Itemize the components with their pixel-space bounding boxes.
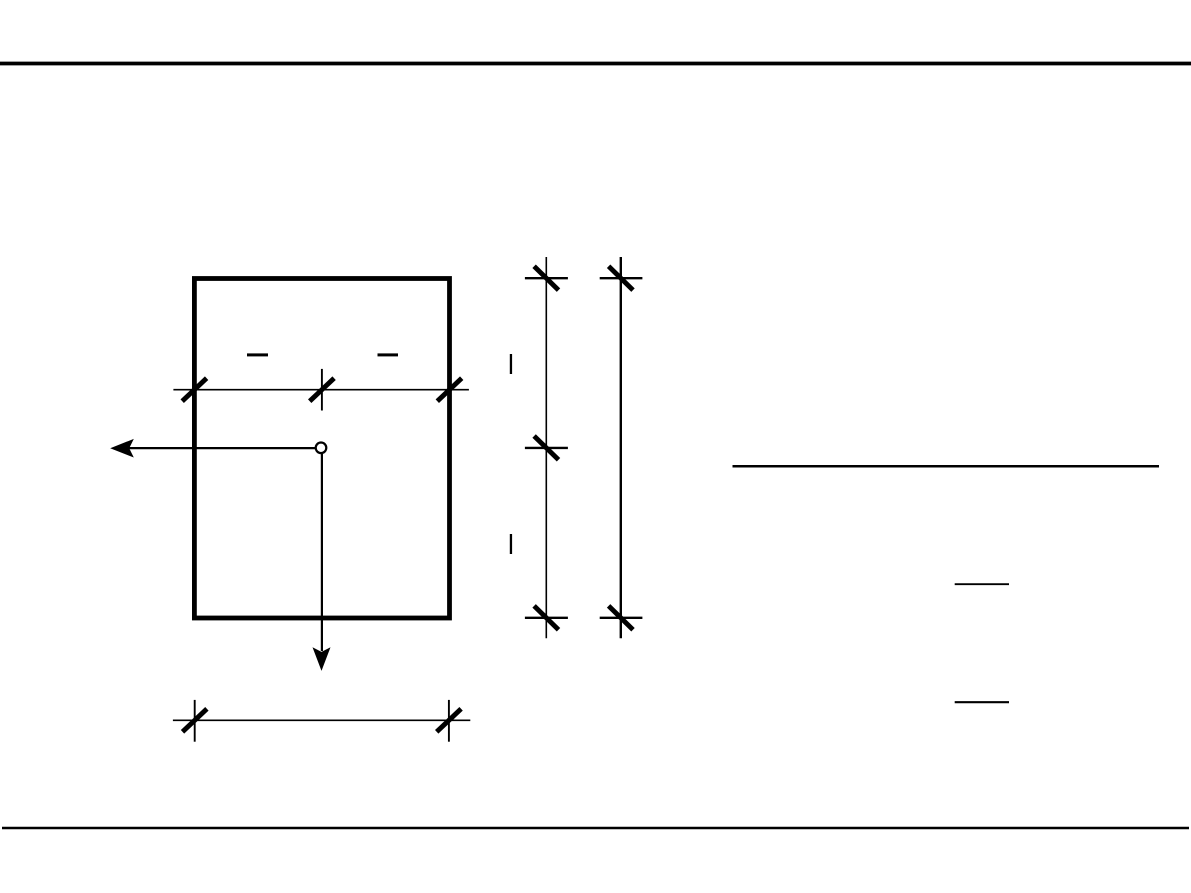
right extension line of bottom dimension: [448, 700, 450, 742]
tick bottom of first vertical dimension: [534, 606, 558, 630]
tick left of bottom dimension: [183, 709, 207, 732]
label fraction bar b/2 left: [247, 353, 268, 356]
first vertical dimension line: [545, 257, 547, 638]
top horizontal dimension line: [173, 389, 469, 391]
tick bottom of second vertical dimension: [609, 606, 633, 630]
equation fraction bar upper: [955, 583, 1009, 585]
top header rule: [0, 62, 1191, 66]
bottom extension line of second vertical dimension: [600, 617, 643, 619]
middle extension line of top dimension: [321, 369, 323, 411]
tick top of second vertical dimension: [609, 266, 633, 290]
second vertical dimension line: [620, 257, 622, 638]
centroid circle: [316, 443, 327, 454]
tick right of bottom dimension: [437, 709, 461, 732]
left extension line of bottom dimension: [194, 700, 196, 742]
equation fraction bar lower: [955, 701, 1009, 703]
vertical arrow shaft (load line): [321, 454, 323, 651]
tick left of top dimension: [182, 378, 206, 401]
tick middle of first vertical dimension: [534, 436, 558, 460]
long equation rule: [733, 465, 1160, 468]
top extension line of first vertical dimension: [525, 277, 568, 279]
label fraction bar b/2 right: [378, 353, 399, 356]
bottom extension line of first vertical dimension: [525, 617, 568, 619]
vertical arrowhead pointing down: [313, 647, 331, 671]
bottom footer rule: [2, 827, 1189, 829]
rotated label fraction bar upper: [510, 354, 512, 374]
tick top of first vertical dimension: [534, 266, 558, 290]
top extension line of second vertical dimension: [600, 277, 643, 279]
horizontal arrow shaft (eccentricity axis): [129, 447, 315, 449]
tick middle of top dimension: [310, 378, 334, 401]
tick right of top dimension: [437, 378, 461, 401]
horizontal arrowhead pointing left: [110, 439, 134, 458]
rotated label fraction bar lower: [510, 534, 512, 554]
middle extension line of first vertical dimension: [525, 447, 568, 449]
cross-section outline rectangle: [194, 279, 449, 619]
bottom horizontal dimension line: [173, 719, 470, 721]
